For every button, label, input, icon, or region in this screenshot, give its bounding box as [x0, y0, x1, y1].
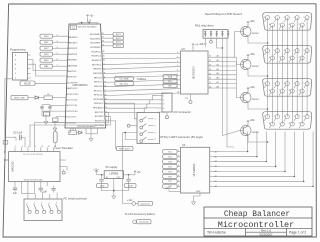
wires MAX232 to serial connector	[21, 186, 23, 194]
wire	[53, 53, 68, 55]
wire	[53, 59, 68, 61]
wire U1 to U3	[104, 84, 177, 87]
svg-text:ULN2803A: ULN2803A	[192, 163, 196, 176]
wire emitter	[247, 24, 249, 27]
svg-text:GND: GND	[196, 191, 201, 193]
svg-text:1uF: 1uF	[43, 192, 48, 194]
title block	[204, 207, 312, 236]
wire U1 to U3	[103, 71, 176, 74]
svg-text:SDA: SDA	[168, 75, 173, 78]
svg-text:2: 2	[178, 155, 179, 157]
svg-text:11: 11	[41, 146, 43, 148]
net label INT oval	[163, 84, 177, 88]
net label GAL7 oval at U4 pin 7	[163, 180, 178, 184]
svg-text:4: 4	[178, 165, 179, 167]
programming header pin 6	[28, 54, 31, 56]
svg-text:Programming: Programming	[10, 48, 26, 52]
svg-text:3: 3	[15, 69, 17, 71]
svg-text:U1: U1	[88, 19, 92, 23]
I2C connector pin 3	[158, 103, 163, 105]
svg-text:TX6: TX6	[168, 176, 172, 178]
svg-text:5: 5	[178, 170, 179, 172]
svg-text:+5v: +5v	[90, 15, 95, 18]
svg-text:8: 8	[289, 123, 290, 125]
svg-text:6: 6	[269, 123, 270, 125]
ground	[45, 116, 47, 118]
svg-text:1: 1	[27, 202, 28, 204]
wire U1 to U3	[102, 62, 176, 65]
wire emitter	[247, 90, 249, 93]
wire U1 to U3	[103, 76, 176, 79]
U5 right pins	[60, 159, 64, 161]
wire U1 RF-SCL down to I2C connector	[104, 100, 157, 104]
svg-text:I2C_SCL: I2C_SCL	[120, 83, 129, 85]
ground	[54, 125, 56, 128]
svg-text:RB6/PGC: RB6/PGC	[67, 71, 77, 73]
U3 top +5 stub	[192, 47, 194, 52]
J10 pin 5	[305, 115, 309, 119]
J9 pin 4	[295, 82, 299, 86]
wire U1 to U3	[103, 80, 176, 83]
svg-text:4: 4	[15, 64, 17, 66]
svg-text:3: 3	[284, 17, 285, 19]
svg-text:+18v: +18v	[249, 86, 255, 89]
svg-text:5V supply: 5V supply	[106, 165, 119, 169]
svg-text:RE3/CC: RE3/CC	[94, 82, 102, 84]
svg-text:2N2907: 2N2907	[252, 132, 260, 134]
wire +12v to U2	[97, 174, 105, 176]
svg-text:+18v: +18v	[199, 43, 205, 46]
voltage regulator U2 LM7805 body	[104, 171, 123, 179]
svg-text:7: 7	[279, 24, 280, 26]
U3 left pin stubs	[176, 53, 180, 55]
svg-text:MAX232: MAX232	[11, 161, 15, 172]
wire VSS join	[76, 132, 78, 134]
net label GAL5 oval at U4 pin 5	[163, 170, 178, 174]
svg-text:TX1: TX1	[168, 151, 172, 153]
svg-text:RE2/CS: RE2/CS	[94, 77, 102, 79]
svg-text:7: 7	[279, 90, 280, 92]
svg-text:6: 6	[15, 55, 17, 57]
svg-text:RF6/TX2: RF6/TX2	[95, 112, 105, 114]
svg-text:3: 3	[284, 116, 285, 118]
svg-text:I2C Connector: I2C Connector	[174, 110, 192, 114]
no-connect circle at J6 pin 2	[127, 124, 130, 127]
svg-text:36: 36	[102, 51, 104, 53]
svg-text:7: 7	[279, 123, 280, 125]
svg-text:RG3: RG3	[44, 54, 49, 56]
wire	[177, 170, 180, 172]
svg-text:RN1 relay driver: RN1 relay driver	[195, 24, 214, 28]
svg-text:28: 28	[209, 87, 211, 89]
svg-text:5: 5	[304, 116, 305, 118]
J10 pin 4	[295, 115, 299, 119]
svg-text:BUSY_LED: BUSY_LED	[14, 98, 25, 100]
J6 switch pin 1	[135, 118, 138, 120]
svg-text:5: 5	[304, 83, 305, 85]
svg-text:RA4/T0CKI: RA4/T0CKI	[66, 87, 77, 90]
J8 pin 4	[295, 49, 299, 53]
svg-text:3: 3	[22, 146, 23, 148]
svg-text:23: 23	[209, 65, 211, 67]
svg-text:To 12V Accessory battery: To 12V Accessory battery	[125, 212, 156, 216]
J2 pin 5	[56, 204, 59, 210]
wire PGD from programming header to U1	[31, 64, 68, 76]
svg-text:7: 7	[57, 65, 58, 67]
svg-text:RLY2: RLY2	[116, 38, 121, 40]
svg-text:5/23/2007: 5/23/2007	[260, 232, 273, 236]
wire base	[240, 97, 243, 99]
svg-text:5: 5	[15, 59, 17, 61]
svg-text:+18v: +18v	[249, 20, 255, 23]
svg-text:6: 6	[269, 90, 270, 92]
+12v quick connect circle	[132, 202, 136, 206]
svg-text:8: 8	[178, 185, 179, 187]
level shifter U5 MAX232 body	[9, 152, 60, 182]
svg-text:1: 1	[178, 150, 179, 152]
svg-text:6: 6	[57, 59, 58, 61]
net label GAL3 oval at U4 pin 3	[163, 160, 178, 164]
net label GAL6 oval at U4 pin 6	[163, 175, 178, 179]
svg-text:34: 34	[103, 60, 105, 62]
wire	[102, 45, 113, 47]
svg-text:OSC1/CLKI: OSC1/CLKI	[66, 105, 78, 107]
svg-text:1: 1	[264, 17, 265, 19]
capacitor C8	[53, 186, 55, 188]
I2C connector pin 4	[158, 107, 163, 109]
svg-text:+12v: +12v	[127, 199, 133, 202]
svg-text:8: 8	[289, 57, 290, 59]
svg-text:28: 28	[101, 33, 103, 35]
svg-text:RB2/INT2: RB2/INT2	[68, 48, 78, 50]
wire base feed Q1	[235, 32, 240, 58]
wire U1 to U3 pin 2	[102, 58, 176, 60]
svg-text:MCP23S17: MCP23S17	[192, 65, 196, 79]
J8 pin 2	[275, 49, 279, 53]
U4 +5 supply at bottom left	[168, 188, 170, 191]
svg-text:6: 6	[269, 24, 270, 26]
J8 pin 8	[290, 56, 294, 60]
wire U2 out to +5v	[124, 174, 136, 176]
J10 pin 8	[290, 122, 294, 126]
no-connect circle under I2C connector	[166, 112, 168, 116]
svg-text:RD5/EC2: RD5/EC2	[92, 56, 102, 58]
RN1 resistor element 4	[221, 31, 223, 37]
J2 pin 3	[41, 204, 44, 210]
svg-text:Page 1 of 2: Page 1 of 2	[289, 231, 306, 235]
svg-text:4: 4	[163, 108, 164, 110]
wire base feed Q3	[236, 88, 239, 98]
wire	[177, 185, 180, 187]
U4 GND stub and ground	[194, 193, 201, 199]
svg-text:8: 8	[289, 90, 290, 92]
net label RA5	[40, 64, 53, 68]
svg-text:10uF: 10uF	[128, 186, 134, 188]
svg-text:6: 6	[178, 175, 179, 177]
wire	[101, 41, 113, 43]
wire LED-resistor to U1	[39, 97, 44, 99]
svg-text:RC2/CCP1: RC2/CCP1	[65, 117, 77, 119]
svg-text:I2C_SDA: I2C_SDA	[120, 78, 129, 81]
svg-text:2: 2	[163, 100, 164, 102]
capacitor C1	[71, 25, 77, 29]
U5 bottom pin stubs	[14, 182, 16, 186]
svg-text:3: 3	[155, 132, 156, 134]
J2 pin 2	[34, 204, 37, 210]
svg-text:RF7/RX2: RF7/RX2	[95, 116, 105, 118]
svg-text:1: 1	[264, 116, 265, 118]
svg-text:RB7/PGD: RB7/PGD	[67, 77, 77, 79]
ground	[90, 134, 92, 135]
programming header pin 4	[28, 63, 31, 65]
J10 pin 9	[300, 122, 304, 126]
LED D1	[28, 97, 35, 99]
wire base	[240, 130, 243, 132]
J7 pin 4	[295, 16, 299, 20]
svg-text:Cheap Balancer: Cheap Balancer	[224, 210, 291, 219]
svg-text:RF4/SCL: RF4/SCL	[94, 103, 104, 105]
transistor Q2 PNP 2N2907	[241, 59, 251, 69]
wires U1 TX RX down to MAX232	[30, 117, 111, 148]
svg-text:TX2: TX2	[168, 156, 172, 158]
svg-text:ATTiny UART connector (5V logi: ATTiny UART connector (5V logic)	[160, 135, 203, 139]
svg-text:RE1/WR: RE1/WR	[93, 73, 102, 75]
wire programming pin to left rail	[5, 79, 13, 160]
J9 pin 3	[285, 82, 289, 86]
J7 pin 6	[271, 23, 275, 27]
+18v supply at Q1	[247, 22, 249, 25]
svg-text:5: 5	[35, 146, 36, 148]
+12v input power symbol	[96, 172, 98, 175]
I2C connector pin 1	[158, 95, 163, 97]
svg-text:PWR_detect: PWR_detect	[119, 148, 131, 151]
wire U1 last pin to PWR_detect net label	[105, 121, 116, 149]
J7 pin 9	[300, 23, 304, 27]
svg-text:RLY3: RLY3	[116, 42, 121, 44]
wire MCLR to U1	[35, 82, 67, 84]
svg-text:TX5: TX5	[168, 171, 172, 173]
J10 pin 2	[275, 115, 279, 119]
svg-text:25: 25	[209, 73, 211, 75]
I2C connector pin 2	[158, 99, 163, 101]
svg-text:4: 4	[294, 116, 295, 118]
vertical join of U3 outputs	[235, 57, 237, 88]
svg-text:RF3/SDA: RF3/SDA	[94, 98, 104, 101]
crystal Y2 circuit	[56, 116, 65, 118]
ground rail under regulator	[102, 190, 129, 192]
net label GAL8 oval at U4 pin 8	[163, 184, 178, 188]
svg-text:+18v: +18v	[249, 53, 255, 56]
svg-text:RB4/KBI0: RB4/KBI0	[67, 60, 77, 62]
svg-text:RC1/T1OSI: RC1/T1OSI	[66, 100, 78, 102]
J2 pin 4	[48, 204, 51, 210]
net label RG0	[40, 34, 53, 38]
wire U1 to U3	[104, 93, 176, 96]
svg-text:RG0: RG0	[44, 36, 49, 38]
svg-text:VDD VDD VDD AVDD: VDD VDD VDD AVDD	[78, 26, 97, 29]
svg-text:5: 5	[56, 202, 57, 204]
svg-text:4: 4	[28, 146, 29, 148]
svg-text:9: 9	[299, 123, 300, 125]
I2C connector pin 5	[158, 111, 163, 113]
J9 pin 1	[266, 82, 270, 86]
J8 pin 1	[266, 49, 270, 53]
svg-text:9: 9	[177, 87, 178, 89]
wire	[101, 37, 113, 39]
svg-text:12: 12	[48, 146, 50, 148]
svg-text:C1: C1	[72, 27, 76, 29]
port expander U3 body	[181, 51, 209, 94]
svg-text:TX3: TX3	[168, 161, 172, 163]
svg-text:2: 2	[274, 83, 275, 85]
net label RG3	[40, 52, 53, 56]
svg-text:2: 2	[155, 126, 156, 128]
PC serial DSUB J2 body	[24, 199, 62, 221]
wire collector	[248, 135, 268, 142]
svg-text:1J: 1J	[71, 129, 73, 131]
wire J6 pins 3-4 to +12v quick connect	[123, 133, 135, 204]
svg-text:10uF: 10uF	[100, 186, 106, 188]
net label RG2	[40, 46, 53, 50]
svg-text:T2I R2O T2O R2I V- GND: T2I R2O T2O R2I V- GND	[24, 180, 44, 182]
net label GAL4 oval at U4 pin 4	[163, 165, 178, 169]
+18v supply to RN1	[204, 44, 206, 47]
U1 bottom pin stubs	[70, 128, 72, 131]
wire U1 RF-SDA down to I2C connector	[104, 96, 157, 100]
svg-text:35: 35	[103, 55, 105, 57]
svg-text:RLY4: RLY4	[116, 46, 121, 48]
U5 left pin stub	[5, 159, 9, 161]
svg-text:Tim Hutsche: Tim Hutsche	[207, 231, 226, 235]
svg-text:3: 3	[284, 83, 285, 85]
net label RG4	[40, 58, 53, 62]
J9 pin 8	[290, 89, 294, 93]
wire RN1 output to bus	[217, 38, 223, 48]
svg-text:C1+ C1- C2+ C2- T1 R1 V+: C1+ C1- C2+ C2- T1 R1 V+	[23, 154, 43, 156]
svg-text:RLY1: RLY1	[116, 34, 121, 36]
svg-text:CS: CS	[185, 98, 188, 100]
J7 pin 1	[266, 16, 270, 20]
svg-text:3: 3	[284, 50, 285, 52]
svg-text:RB3/INT3: RB3/INT3	[68, 54, 78, 56]
+18v supply at Q4	[247, 121, 249, 124]
svg-text:4: 4	[294, 50, 295, 52]
DSUB 9 connector J10	[263, 112, 312, 130]
net label SCL oval	[163, 79, 177, 83]
J9 pin 2	[275, 82, 279, 86]
wire RN1 long vertical B	[227, 38, 234, 147]
svg-text:9: 9	[299, 90, 300, 92]
wire	[177, 175, 180, 177]
svg-text:20: 20	[106, 120, 108, 122]
svg-text:2N2907: 2N2907	[252, 99, 260, 101]
svg-text:2: 2	[274, 116, 275, 118]
svg-text:RD2/WR2: RD2/WR2	[90, 43, 101, 45]
svg-text:RD3/WR3: RD3/WR3	[91, 47, 102, 49]
svg-text:RF5/AN10: RF5/AN10	[93, 107, 104, 110]
svg-text:RG1: RG1	[44, 42, 49, 44]
svg-text:RB5/PGM: RB5/PGM	[67, 65, 77, 67]
net label boxed 0.1uF B	[115, 81, 134, 85]
wire	[177, 151, 180, 153]
inductor L1	[69, 131, 77, 135]
svg-text:9: 9	[299, 57, 300, 59]
RN1 pin stubs down	[204, 38, 206, 42]
wire	[177, 180, 180, 182]
wire	[177, 156, 180, 158]
resistor network RN1 box	[203, 30, 228, 39]
programming header pin 5	[28, 59, 31, 61]
programming header pin 2	[28, 72, 31, 74]
svg-text:RD0/WR0: RD0/WR0	[90, 34, 101, 36]
capacitor C5	[15, 137, 17, 141]
UART expander U4 body	[181, 147, 210, 193]
svg-text:5: 5	[304, 50, 305, 52]
power detect connector J6 body	[137, 113, 160, 144]
svg-text:7: 7	[279, 57, 280, 59]
svg-text:26: 26	[209, 78, 211, 80]
svg-text:Microcontroller: Microcontroller	[218, 220, 295, 230]
J10 pin 3	[285, 115, 289, 119]
resistor R1	[44, 96, 53, 99]
svg-text:4: 4	[49, 202, 50, 204]
J6 switch pin 4	[135, 138, 138, 140]
net label GAL1 oval at U4 pin 1	[163, 150, 178, 154]
wire collector	[248, 102, 268, 109]
net label QuickConn oval	[138, 201, 153, 205]
J8 pin 7	[280, 56, 284, 60]
J7 pin 8	[290, 23, 294, 27]
svg-text:1: 1	[15, 146, 16, 148]
wire U1 to PWR_detect pin 1	[104, 103, 137, 119]
svg-text:dsPIC30F6013: dsPIC30F6013	[73, 85, 89, 87]
wire to I2C connector pin 3	[105, 104, 158, 108]
wire	[53, 65, 68, 67]
net label RG1	[40, 40, 53, 44]
wire RN1 long vertical A	[221, 38, 223, 135]
svg-text:+12v: +12v	[93, 169, 99, 172]
programming header pin 3	[28, 68, 31, 70]
J9 pin 9	[300, 89, 304, 93]
svg-text:+5v: +5v	[137, 171, 142, 174]
svg-text:RE0/RD: RE0/RD	[93, 69, 101, 71]
U4 right pin stubs	[210, 151, 214, 153]
transistor Q4 PNP 2N2907	[241, 125, 251, 135]
svg-text:8: 8	[289, 24, 290, 26]
J7 pin 5	[305, 16, 309, 20]
J9 pin 6	[271, 89, 275, 93]
svg-text:MCLR: MCLR	[24, 83, 31, 85]
net label BUSY_LED	[11, 95, 28, 99]
svg-text:21: 21	[209, 56, 211, 58]
svg-text:1: 1	[177, 52, 178, 54]
I2C connector J5 body	[162, 93, 172, 112]
svg-text:1uF: 1uF	[13, 193, 18, 195]
net label QuickConn oval 2	[137, 220, 152, 224]
bus junction dots	[267, 42, 269, 44]
fuse F1 on left wire	[3, 141, 8, 145]
J8 pin 9	[300, 56, 304, 60]
wire U1 to U3 pin 1	[102, 53, 176, 55]
svg-text:C5 0.1uF: C5 0.1uF	[13, 132, 23, 134]
capacitor C4 10uF	[128, 175, 130, 180]
U5 top pin stubs	[14, 147, 16, 151]
svg-text:RD7/EC4: RD7/EC4	[92, 64, 102, 66]
ground	[113, 193, 115, 196]
svg-text:2: 2	[274, 50, 275, 52]
RN1 resistor element 3	[216, 31, 218, 37]
J8 pin 3	[285, 49, 289, 53]
